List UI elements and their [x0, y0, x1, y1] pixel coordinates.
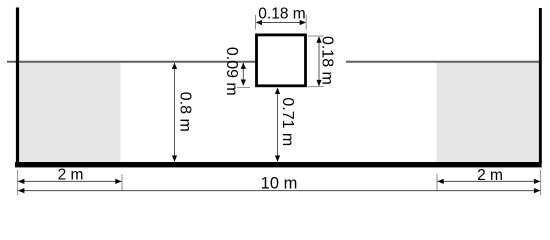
dimension 0.18 m (top width of cube) [256, 5, 307, 29]
svg-text:2 m: 2 m [477, 167, 503, 184]
water surface line left segment [7, 61, 255, 63]
extension line left [255, 15, 257, 30]
arrowhead bottom [316, 80, 321, 86]
svg-text:0.18 m: 0.18 m [318, 36, 335, 85]
dimension 10 m (full inner width) [18, 174, 540, 193]
tank bottom [15, 162, 542, 167]
dimension 2 m (right) [437, 167, 540, 184]
arrowhead left [256, 20, 262, 25]
svg-text:0.8 m: 0.8 m [177, 92, 194, 132]
extension tick far right [540, 170, 542, 195]
svg-text:0.71 m: 0.71 m [279, 97, 296, 146]
dimension line [257, 22, 306, 24]
arrowhead right [534, 179, 540, 184]
extension line top [308, 35, 324, 37]
dimension 0.18 m (right height of cube) [308, 36, 335, 87]
arrowhead top [172, 63, 177, 69]
extension tick far left [17, 170, 19, 195]
dimension line [318, 37, 320, 86]
dimension 2 m (left) [18, 166, 122, 184]
svg-text:2 m: 2 m [58, 166, 84, 183]
extension tick right-inner [436, 174, 438, 191]
dimension line [242, 63, 244, 85]
arrowhead right [534, 188, 540, 193]
right wall [539, 8, 542, 163]
svg-text:0.18 m: 0.18 m [258, 5, 305, 22]
arrowhead right [300, 20, 306, 25]
dimension 0.8 m (water depth) [172, 63, 194, 162]
dimension line [18, 180, 122, 182]
right gray block [437, 62, 540, 162]
dimension line [18, 190, 540, 192]
arrowhead top [275, 88, 280, 94]
left wall [16, 8, 19, 164]
extension tick left-inner [121, 174, 123, 191]
extension line right [305, 15, 307, 30]
arrowhead bottom [275, 156, 280, 162]
floating cube [257, 35, 306, 86]
arrowhead left [18, 179, 24, 184]
water surface line right segment [346, 61, 541, 63]
dimension 0.71 m (cube bottom to tank bottom) [275, 88, 296, 162]
extension line bottom [308, 86, 324, 88]
svg-text:0.09 m: 0.09 m [223, 47, 240, 96]
arrowhead top [316, 36, 321, 42]
arrowhead bottom [241, 80, 246, 86]
arrowhead left [18, 188, 24, 193]
arrowhead top [241, 63, 246, 69]
extension line bottom [237, 86, 250, 88]
arrowhead left [437, 179, 443, 184]
svg-text:10 m: 10 m [261, 174, 298, 192]
dimension line [277, 88, 279, 161]
dimension line [174, 63, 176, 161]
left gray block [19, 62, 121, 162]
dimension 0.09 m (submerged depth of cube) [223, 47, 250, 96]
arrowhead bottom [172, 156, 177, 162]
dimension line [438, 180, 541, 182]
arrowhead right [115, 179, 121, 184]
